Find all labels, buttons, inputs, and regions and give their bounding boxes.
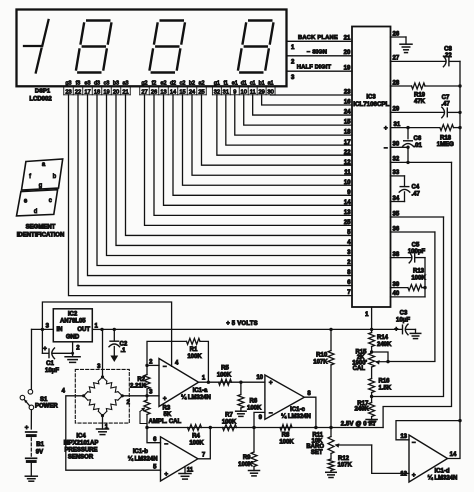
svg-text:b1: b1 [259, 80, 265, 86]
svg-text:R18: R18 [440, 135, 452, 141]
svg-text:C8: C8 [444, 47, 452, 53]
svg-text:29: 29 [393, 107, 400, 113]
svg-text:9V: 9V [36, 449, 43, 455]
svg-text:IC1-d: IC1-d [435, 468, 450, 474]
ground at R9 [249, 470, 260, 472]
IC3 pin 31 wire [391, 127, 440, 129]
svg-text:DSP1: DSP1 [35, 88, 51, 94]
svg-text:100K: 100K [238, 462, 253, 468]
resistor R7 100K [223, 425, 237, 431]
potentiometer R15 2K 1900' CAL [369, 353, 375, 367]
svg-text:+ 5 VOLTS: + 5 VOLTS [226, 321, 258, 327]
resistor R4 100K [188, 425, 202, 431]
IC3 pin 1 stub [371, 307, 373, 329]
wire LCD segment to IC3 pin 4 [116, 95, 352, 246]
svg-text:LCD002: LCD002 [29, 96, 52, 102]
ground at C3 [415, 329, 417, 333]
resistor R14 249K [371, 329, 373, 332]
svg-text:107K: 107K [313, 360, 328, 366]
svg-text:100K: 100K [411, 275, 426, 281]
IC1-b pin 6 wire [147, 428, 161, 443]
svg-text:R19: R19 [414, 92, 426, 98]
svg-text:R7: R7 [225, 413, 233, 419]
resistor R17 249K [371, 397, 373, 403]
IC3 pin 26 wire [391, 36, 407, 38]
svg-text:40: 40 [393, 291, 400, 297]
+5 volt rail [102, 328, 402, 330]
bridge resistor top-left [84, 392, 88, 396]
svg-text:.1: .1 [121, 348, 127, 354]
LCD digit 8 [87, 19, 109, 21]
LCD half digit minus sign [24, 45, 41, 47]
svg-text:R8: R8 [282, 433, 290, 439]
svg-text:8: 8 [307, 391, 311, 397]
svg-text:+: + [25, 424, 29, 431]
resistor R18 1MEG [440, 125, 454, 131]
wire mid node line [199, 381, 265, 383]
svg-text:d: d [34, 209, 37, 215]
svg-text:.47: .47 [441, 101, 450, 107]
svg-text:R5: R5 [221, 366, 229, 372]
svg-text:7: 7 [202, 452, 206, 458]
wire LCD segment to IC3 pin 6 [78, 95, 352, 286]
bridge resistor top-right [103, 377, 107, 381]
svg-text:d3: d3 [94, 80, 100, 86]
svg-text:IC1-b: IC1-b [133, 449, 148, 455]
ground at R17 [366, 419, 377, 421]
svg-text:11: 11 [187, 467, 194, 473]
svg-text:B1: B1 [36, 442, 44, 448]
svg-text:R2: R2 [137, 377, 145, 383]
svg-text:107K: 107K [338, 463, 353, 469]
resistor R13 100K [408, 285, 422, 291]
wire 9V rail to switch [30, 329, 32, 389]
svg-text:AN78L05: AN78L05 [60, 318, 86, 324]
svg-text:C7: C7 [442, 95, 450, 101]
svg-text:d2: d2 [170, 80, 176, 86]
IC3 pin 38 wire [391, 257, 412, 259]
svg-text:3: 3 [149, 390, 153, 396]
svg-text:R1: R1 [190, 347, 198, 353]
svg-text:18: 18 [344, 130, 351, 136]
wire LCD segment to IC3 pin 25 [145, 95, 353, 226]
svg-text:10μF: 10μF [45, 368, 59, 374]
wire LCD segment to IC3 pin 24 [253, 95, 352, 115]
svg-text:a: a [42, 162, 46, 168]
wire LCD segment to IC3 pin 15 [244, 95, 352, 125]
svg-text:e2: e2 [161, 80, 167, 86]
svg-text:b: b [53, 174, 57, 180]
capacitor C3 10uF [402, 325, 404, 334]
svg-text:AMPL. CAL: AMPL. CAL [149, 419, 182, 425]
svg-text:2.21K: 2.21K [130, 383, 147, 389]
svg-text:R16: R16 [379, 379, 391, 385]
svg-text:20: 20 [344, 50, 351, 56]
op-amp IC1-c 1/4 LM324N [265, 375, 304, 419]
bridge resistor bottom-left [98, 411, 102, 415]
bridge node 3 wire to +5V [102, 329, 104, 377]
potentiometer R3 5K AMPL. CAL [146, 396, 148, 400]
svg-text:27: 27 [393, 56, 400, 62]
svg-text:10: 10 [256, 375, 263, 381]
IC3 pin 29 wire [391, 111, 444, 113]
svg-text:39: 39 [393, 282, 400, 288]
resistor R6 100K to ground [240, 382, 242, 394]
wire LCD segment to IC3 pin 5 [126, 95, 353, 236]
bridge node 1 wire to ground [102, 416, 104, 429]
wire LCD segment to IC3 pin 11 [192, 95, 352, 175]
node R4 R7 IC1-b output [209, 426, 212, 429]
IC2 pin 1 output [92, 328, 102, 330]
svg-text:100pF: 100pF [408, 249, 426, 255]
wire LCD segment to IC3 pin 13 [154, 95, 352, 216]
svg-text:2: 2 [76, 345, 80, 351]
wire LCD segment to IC3 pin 2 [97, 95, 352, 266]
svg-text:g2: g2 [142, 80, 148, 86]
node IC1-a output [207, 381, 210, 384]
svg-text:e1: e1 [232, 80, 238, 86]
bridge node 4 wire to IC1-b pin 5 [66, 396, 161, 470]
svg-text:1: 1 [365, 312, 369, 318]
node R7 R9 IC1-c pin 9 [252, 426, 255, 429]
svg-text:MPX2101AP: MPX2101AP [64, 441, 99, 447]
svg-text:31: 31 [394, 122, 401, 128]
svg-text:21: 21 [344, 36, 351, 42]
svg-text:3: 3 [291, 75, 295, 81]
node IC1-c output 2.5V [314, 426, 317, 429]
resistor R2 2.21K [144, 375, 150, 390]
svg-text:¼ LM324N: ¼ LM324N [428, 475, 458, 482]
wire LCD segment to IC3 pin 23 [271, 94, 352, 96]
node R14 R15 [370, 350, 373, 353]
svg-text:POWER: POWER [35, 403, 58, 409]
IC IC3 ICL7106CPL body [352, 27, 391, 308]
svg-text:14: 14 [344, 200, 351, 206]
svg-text:28: 28 [393, 80, 400, 86]
wire LCD segment to IC3 pin 9 [173, 95, 352, 196]
LCD half digit 1 [42, 20, 48, 46]
svg-text:100K: 100K [217, 372, 232, 378]
svg-text:15: 15 [344, 120, 351, 126]
svg-text:33: 33 [393, 170, 400, 176]
svg-text:16: 16 [344, 100, 351, 106]
svg-text:R10: R10 [316, 353, 328, 359]
svg-text:SET: SET [311, 450, 323, 456]
svg-text:R14: R14 [377, 335, 389, 341]
svg-text:C4: C4 [412, 185, 420, 191]
svg-text:−: − [269, 410, 273, 417]
IC1-d pin 13 feedback wire [396, 421, 460, 440]
svg-text:GND: GND [66, 335, 80, 341]
node R13 C5 pin40 [423, 286, 426, 289]
svg-text:47K: 47K [414, 99, 426, 105]
segment identification digit upper outline [22, 159, 63, 190]
svg-text:3: 3 [97, 364, 101, 370]
svg-text:CAL: CAL [353, 366, 366, 372]
svg-text:R3: R3 [163, 405, 171, 411]
ground at IC3 pin 26 [405, 37, 407, 44]
svg-text:C2: C2 [120, 341, 128, 347]
svg-text:+: + [269, 380, 273, 387]
svg-text:9: 9 [259, 415, 263, 421]
svg-text:−: − [412, 439, 416, 446]
svg-text:¼ LM324N: ¼ LM324N [128, 455, 158, 462]
wire LCD pin 3 HALF DIGIT to IC3 pin 19 [287, 70, 353, 72]
op-amp IC1-a 1/4 LM324N [159, 359, 199, 407]
IC3 pin 39 wire [391, 287, 408, 289]
IC1-c pin 9 wire [254, 412, 265, 427]
svg-text:R9: R9 [243, 455, 251, 461]
wire LCD pin 1 BACK PLANE to IC3 pin 21 [287, 40, 353, 42]
svg-text:+: + [43, 345, 47, 352]
IC1-c pin 8 output wire [304, 397, 316, 427]
svg-text:SENSOR: SENSOR [68, 455, 94, 461]
svg-text:100K: 100K [222, 419, 237, 425]
svg-text:12: 12 [344, 160, 351, 166]
svg-text:5K: 5K [164, 412, 172, 418]
ground at B1 [25, 475, 37, 477]
svg-text:1.5K: 1.5K [379, 386, 392, 392]
svg-text:g3: g3 [66, 80, 72, 86]
svg-text:10μF: 10μF [396, 317, 410, 323]
bridge resistor bottom-right [118, 396, 122, 400]
svg-text:25: 25 [344, 220, 351, 226]
svg-text:34: 34 [393, 196, 400, 202]
wire LCD segment to IC3 pin 16 [262, 95, 352, 105]
IC2 pin 3 input node [41, 328, 44, 331]
svg-text:IN: IN [57, 327, 63, 333]
svg-text:.22: .22 [443, 53, 452, 59]
svg-text:f3: f3 [76, 80, 81, 86]
svg-text:35: 35 [393, 211, 400, 217]
svg-text:e3: e3 [85, 80, 91, 86]
svg-text:100K: 100K [279, 440, 294, 446]
svg-text:BACK PLANE: BACK PLANE [298, 35, 338, 41]
svg-text:d1: d1 [241, 80, 247, 86]
node R16 R17 [370, 395, 373, 398]
IC3 pin 28 wire [391, 85, 412, 87]
wire LCD segment to IC3 pin 17 [226, 95, 352, 145]
IC2 pin 2 ground [72, 342, 74, 354]
node IC1-d output feedback [458, 419, 461, 422]
svg-text:36: 36 [393, 226, 400, 232]
wire right-edge bus from C8 to IC1-d output [459, 61, 461, 420]
svg-text:g: g [39, 183, 42, 189]
svg-text:12: 12 [400, 471, 407, 477]
resistor R19 47K [412, 83, 426, 89]
svg-text:S1: S1 [40, 397, 48, 403]
svg-text:PRESSURE: PRESSURE [64, 448, 97, 454]
wire LCD segment to IC3 pin 22 [217, 95, 352, 155]
potentiometer R11 10K BARO SET [330, 428, 332, 437]
svg-text:10: 10 [344, 180, 351, 186]
svg-text:−: − [163, 363, 167, 370]
svg-text:IC1-c: IC1-c [290, 407, 305, 413]
svg-text:a2: a2 [199, 80, 205, 86]
svg-text:+: + [394, 327, 398, 333]
op-amp IC1-d 1/4 LM324N [409, 435, 448, 482]
LCD digit 8 [161, 19, 183, 21]
svg-text:R4: R4 [192, 434, 200, 440]
svg-text:+: + [384, 125, 388, 132]
switch S1 POWER [20, 395, 25, 400]
resistor R16 1.5K [369, 379, 375, 393]
IC3 pin 36 wire to R15 wiper [391, 231, 435, 233]
capacitor C5 100pF [414, 253, 416, 262]
svg-text:C3: C3 [400, 310, 408, 316]
wire LCD segment to IC3 pin 12 [202, 95, 353, 165]
svg-text:IC4: IC4 [76, 434, 86, 440]
svg-text:249K: 249K [377, 342, 392, 348]
svg-text:IDENTIFICATION: IDENTIFICATION [17, 232, 65, 238]
capacitor C1 10uF [41, 329, 43, 353]
IC3 pin 35 wire to R16 R17 junction [391, 216, 444, 218]
bridge node 2 wire to IC1-a pin 3 [122, 395, 159, 397]
resistor R10 107K [330, 329, 332, 350]
svg-text:c1: c1 [250, 80, 256, 86]
svg-text:+: + [412, 472, 416, 479]
svg-text:g1: g1 [214, 80, 220, 86]
svg-text:−: − [384, 145, 388, 152]
svg-text:23: 23 [344, 90, 351, 96]
svg-text:OUT: OUT [77, 327, 90, 333]
svg-text:e: e [24, 199, 28, 205]
svg-text:b3: b3 [113, 80, 119, 86]
svg-text:11: 11 [344, 170, 351, 176]
IC3 pin 34 wire [391, 201, 405, 203]
ground at R12 [326, 471, 337, 473]
svg-text:b2: b2 [189, 80, 195, 86]
svg-text:a3: a3 [123, 80, 129, 86]
svg-text:f: f [29, 174, 31, 180]
resistor R5 100K [219, 379, 232, 385]
op-amp IC1-b 1/4 LM324N [161, 437, 198, 481]
svg-text:13: 13 [344, 210, 351, 216]
svg-text:HALF DIGIT: HALF DIGIT [297, 65, 332, 71]
svg-text:f2: f2 [152, 80, 157, 86]
IC3 pin 33 wire [391, 175, 405, 177]
svg-text:4: 4 [175, 360, 179, 366]
IC3 pin 27 wire [391, 60, 446, 62]
svg-text:30: 30 [393, 142, 400, 148]
resistor R9 100K to ground [253, 428, 255, 453]
capacitor C4 .47 between IC3 pins 33 and 34 [404, 176, 406, 187]
ground arrow at C2 [110, 356, 118, 363]
svg-text:c3: c3 [104, 80, 110, 86]
wire battery to ground [30, 462, 32, 477]
svg-text:C1: C1 [46, 361, 54, 367]
svg-text:ICL7106CPL: ICL7106CPL [353, 101, 389, 108]
resistor R8 100K [280, 425, 292, 431]
svg-text:C5: C5 [412, 242, 420, 248]
svg-text:32: 32 [393, 157, 400, 163]
wire unregulated 9V to op-amp supply [42, 302, 171, 366]
wire LCD segment to IC3 pin 7 [69, 95, 353, 296]
svg-text:2.5V @ 0 FT: 2.5V @ 0 FT [341, 421, 377, 427]
resistor R1 100K feedback [147, 341, 187, 365]
svg-text:100K: 100K [187, 354, 202, 360]
svg-text:.01: .01 [414, 143, 423, 149]
svg-text:14: 14 [450, 452, 457, 458]
svg-text:C6: C6 [414, 136, 422, 142]
svg-text:3: 3 [46, 324, 50, 330]
svg-text:¼ LM324N: ¼ LM324N [181, 394, 211, 401]
svg-text:24: 24 [344, 110, 351, 116]
IC1-b pin 7 output wire [198, 428, 210, 459]
svg-text:1: 1 [291, 45, 295, 51]
node R2 R3 bridge [145, 394, 148, 397]
svg-text:R12: R12 [338, 456, 350, 462]
svg-text:1MEG: 1MEG [437, 142, 454, 148]
capacitor C8 .22 [448, 57, 450, 66]
segment identification digit lower outline [17, 190, 58, 216]
wire LCD segment to IC3 pin 10 [183, 95, 353, 185]
svg-text:22: 22 [344, 150, 351, 156]
capacitor C6 .01 between IC3 pins 31 and 30 [406, 126, 409, 129]
svg-text:100K: 100K [189, 440, 204, 446]
pressure sensor IC4 MPX2101AP dashed outline [75, 369, 129, 423]
IC3 pin 30 wire [391, 146, 409, 148]
LCD digit 8 [249, 19, 271, 21]
resistor R12 107K [328, 459, 334, 471]
wire LCD pin 2 minus sign to IC3 pin 20 [287, 55, 353, 57]
svg-text:2: 2 [291, 59, 295, 65]
R11 wiper to IC1-d pin 12 [336, 444, 372, 446]
capacitor C2 .1 [113, 329, 115, 341]
svg-text:249K: 249K [354, 407, 369, 413]
R3 wiper arm [140, 412, 147, 424]
svg-text:.47: .47 [412, 191, 421, 197]
wire LCD segment to IC3 pin 8 [88, 95, 353, 276]
R15 wiper arm [377, 361, 389, 363]
wire amplifier bottom line [147, 427, 383, 429]
LCD pin number boxes [63, 86, 65, 95]
svg-text:17: 17 [344, 140, 351, 146]
svg-text:−: − [164, 441, 168, 448]
node R5 R6 IC1-c [239, 381, 242, 384]
svg-text:38: 38 [393, 252, 400, 258]
svg-text:+: + [163, 396, 167, 403]
svg-text:100K: 100K [247, 405, 262, 411]
svg-text:c: c [49, 198, 52, 204]
wire switch to battery [30, 410, 32, 429]
svg-text:19: 19 [344, 65, 351, 71]
svg-text:+: + [164, 471, 168, 478]
svg-text:26: 26 [393, 31, 400, 37]
svg-text:1: 1 [202, 376, 206, 382]
wire LCD segment to IC3 pin 18 [235, 95, 352, 135]
svg-text:4: 4 [62, 388, 66, 394]
wire C5 to R13 node [424, 258, 426, 288]
svg-text:2: 2 [149, 359, 153, 365]
ground at IC2 [72, 353, 74, 357]
IC3 pin 32 wire to 2.5V common [391, 161, 452, 163]
IC1-d pin 14 output wire [448, 421, 461, 459]
svg-text:R6: R6 [250, 399, 258, 405]
wire LCD segment to IC3 pin 3 [107, 95, 353, 256]
svg-text:− SIGN: − SIGN [307, 49, 327, 55]
svg-text:SEGMENT: SEGMENT [26, 224, 56, 230]
svg-text:IC3: IC3 [366, 94, 376, 100]
svg-text:¼ LM324N: ¼ LM324N [281, 413, 311, 420]
IC IC2 AN78L05 body [53, 309, 92, 342]
svg-text:IC2: IC2 [68, 311, 78, 317]
svg-text:R13: R13 [413, 268, 425, 274]
svg-text:1: 1 [95, 324, 99, 330]
IC1-b pin 11 ground [184, 467, 186, 474]
IC3 pin 40 wire [391, 296, 426, 298]
IC1-a pin 2 wire [147, 364, 159, 366]
